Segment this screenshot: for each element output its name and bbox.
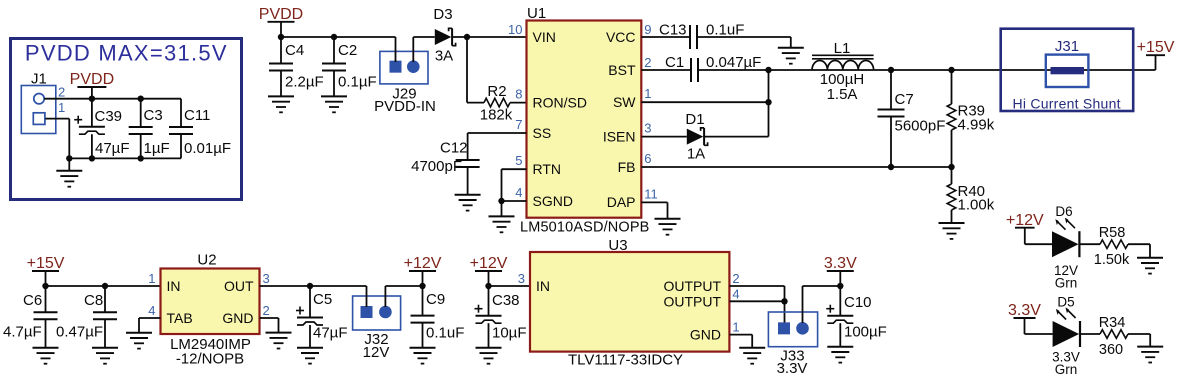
svg-text:D3: D3 [433,6,452,23]
label C2 [338,42,357,59]
pin VCC [606,29,636,45]
pin FB [618,159,636,175]
wire [1080,333,1100,335]
pin OUTPUT 4 [663,293,721,309]
svg-text:C10: C10 [844,294,872,311]
svg-text:C9: C9 [426,291,445,308]
label LM5010ASD/NOPB [520,220,649,236]
label D5 [1057,295,1074,310]
label U3 [608,237,627,254]
capacitor C2 [322,37,346,96]
wire [698,69,812,71]
svg-text:C2: C2 [338,42,357,59]
label C4 [285,42,304,59]
svg-text:2: 2 [644,55,651,70]
capacitor C13 [690,25,697,49]
IC U1 LM5010ASD/NOPB [527,21,642,218]
pin number 6 [644,151,651,166]
junction [89,96,95,102]
pin number 1 [732,320,739,335]
capacitor C5 [296,286,323,348]
junction [89,155,95,161]
wire [510,102,527,104]
label C10 [844,294,872,311]
label C6 [23,292,42,309]
pin GND [690,327,721,343]
svg-text:J1: J1 [31,71,47,88]
junction [464,34,470,40]
svg-text:BST: BST [608,62,636,78]
junction [307,283,313,289]
wire [641,136,687,138]
pin number 2 [644,55,651,70]
svg-text:+15V: +15V [27,255,65,272]
svg-text:4700pF: 4700pF [411,158,462,175]
label PVDD-IN [374,98,436,115]
capacitor C11 [169,99,193,159]
svg-text:PVDD-IN: PVDD-IN [374,98,436,115]
resistor R2 [484,98,510,107]
value 10µF [492,325,527,342]
label R34 [1099,315,1126,331]
label J29 [392,86,416,103]
value 47µF [95,140,130,157]
ground [1137,347,1163,363]
pin number 2 [732,271,739,286]
junction [948,67,954,73]
value 12V [1054,263,1078,278]
value 0.047µF [706,54,761,71]
wire [260,318,279,333]
label 12V [363,344,390,361]
svg-text:3: 3 [518,271,525,286]
power flag +15V [1137,39,1175,70]
svg-text:Hi Current Shunt: Hi Current Shunt [1013,96,1121,112]
svg-text:U1: U1 [527,5,546,22]
junction [765,99,771,105]
wire [729,286,784,301]
svg-text:R58: R58 [1099,225,1126,241]
svg-text:PVDD: PVDD [70,71,114,88]
svg-text:C7: C7 [895,91,914,108]
ground [33,348,59,364]
svg-text:DAP: DAP [607,194,636,210]
svg-text:PVDD: PVDD [259,6,303,23]
svg-text:2: 2 [263,303,270,318]
svg-text:4.7µF: 4.7µF [3,324,42,341]
wire [803,286,841,323]
value 1µF [144,140,170,157]
svg-text:R34: R34 [1099,315,1126,331]
wire [1025,333,1053,335]
LED D5 [1053,307,1080,347]
svg-text:182k: 182k [480,107,513,124]
connector J29 [380,51,428,84]
svg-text:1: 1 [644,86,651,101]
svg-text:U2: U2 [197,252,216,269]
capacitor C10 [826,286,853,347]
svg-text:IN: IN [167,278,181,294]
connector J33 [768,312,817,347]
svg-text:OUTPUT: OUTPUT [663,293,721,309]
label C3 [144,107,163,124]
label L1 [834,40,851,57]
svg-text:C5: C5 [313,291,332,308]
svg-text:SGND: SGND [533,193,573,209]
pin number 11 [644,186,658,201]
pin number 2 of J1 [58,85,65,100]
capacitor C12 [456,160,480,167]
wire [139,318,161,333]
capacitor C9 [411,286,435,348]
label J33 [780,347,804,364]
svg-text:1.5A: 1.5A [827,86,858,103]
power flag +12V [1006,212,1044,244]
svg-text:0.1uF: 0.1uF [706,22,744,39]
svg-text:+12V: +12V [470,255,508,272]
ground [297,348,323,364]
svg-text:0.47µF: 0.47µF [56,324,103,341]
ground [1137,258,1163,274]
value 100µF [844,324,887,341]
svg-text:4.99k: 4.99k [958,117,995,134]
svg-text:3.3V: 3.3V [777,360,808,377]
svg-text:IN: IN [536,278,550,294]
label TLV1117-33IDCY [568,352,683,369]
wire [46,285,161,287]
pin number 8 [515,87,522,102]
power flag PVDD (in box) [70,71,114,99]
value 0.1µF [338,74,377,91]
value 0.1uF [706,22,744,39]
junction [948,164,954,170]
label C11 [184,107,210,124]
pin DAP [607,194,636,210]
svg-text:D1: D1 [685,111,704,128]
label C13 [659,22,687,39]
label D1 [685,111,704,128]
ground [455,167,481,211]
svg-text:SW: SW [613,94,636,110]
PVDD MAX annotation box [11,39,242,200]
svg-text:47µF: 47µF [95,140,130,157]
pin RTN [533,161,562,177]
value 4.7µF [3,324,42,341]
svg-text:+15V: +15V [1137,39,1175,56]
value 360 [1099,342,1123,358]
svg-text:C11: C11 [184,107,210,124]
label U2 [197,252,216,269]
value 4700pF [411,158,462,175]
svg-text:360: 360 [1099,342,1123,358]
resistor R40 [947,167,956,223]
value Grn [1055,276,1078,291]
resistor R58 [1100,240,1128,249]
svg-text:R2: R2 [487,83,506,100]
wire [1128,244,1150,258]
junction [138,155,144,161]
wire [452,36,526,38]
svg-text:+12V: +12V [1006,212,1044,229]
shunt bar [1051,67,1085,74]
pin number 5 [515,153,522,168]
wire [502,169,527,201]
pin IN [536,278,550,294]
value 3.3V [1052,350,1080,365]
power flag PVDD [259,6,303,37]
pin SGND [533,193,573,209]
ground [827,347,853,363]
svg-text:SS: SS [533,125,552,141]
IC U2 LM2940IMP-12/NOPB [161,269,260,335]
wire [784,301,786,322]
junction [837,283,843,289]
pin number 1 [148,271,155,286]
svg-text:5600pF: 5600pF [895,118,946,135]
pin RON/SD [533,94,587,110]
junction [765,67,771,73]
svg-text:VCC: VCC [606,29,636,45]
svg-text:1µF: 1µF [144,140,170,157]
label C12 [440,140,468,157]
value 182k [480,107,513,124]
svg-text:4: 4 [732,286,739,301]
wire [641,36,690,38]
wire [260,285,367,287]
pin VIN [533,29,556,45]
pin SS [533,125,552,141]
pin number 4 [148,303,155,318]
wire [489,285,531,287]
connector J32 [353,296,401,330]
wire [641,166,951,168]
svg-text:3A: 3A [435,48,453,65]
value 0.1uF [426,325,464,342]
svg-text:LM5010ASD/NOPB: LM5010ASD/NOPB [520,220,649,236]
capacitor C38 [475,286,502,348]
label -12/NOPB [176,351,244,368]
power flag +12V [404,255,442,286]
svg-text:+12V: +12V [404,255,442,272]
svg-text:C4: C4 [285,42,304,59]
label D6 [1055,204,1072,219]
label C8 [84,292,103,309]
capacitor C39 [74,99,105,159]
ground [476,348,502,364]
wire [704,136,768,138]
pin OUT [224,278,254,294]
capacitor C6 [34,286,58,348]
label 3.3V [777,360,808,377]
pin number 1 of J1 [58,100,65,115]
svg-text:3: 3 [644,121,651,136]
wire [697,37,791,48]
svg-text:10µF: 10µF [492,325,527,342]
wire [467,37,484,103]
svg-text:47µF: 47µF [313,325,348,342]
label J31 [1055,38,1079,55]
value 100µH [820,71,865,88]
ground [778,48,804,64]
svg-text:J31: J31 [1055,38,1079,55]
svg-text:4: 4 [515,185,522,200]
svg-text:5: 5 [515,153,522,168]
label J32 [364,331,388,348]
capacitor C7 [878,70,905,167]
junction [66,155,72,161]
label C5 [313,291,332,308]
title text PVDD MAX=31.5V [25,41,227,66]
wire [1128,334,1150,347]
power flag +12V [470,255,508,286]
pin number 3 [263,271,270,286]
svg-text:1.50k: 1.50k [1094,252,1130,268]
pin BST [608,62,636,78]
label R2 [487,83,506,100]
svg-text:9: 9 [644,22,651,37]
ground [489,201,515,232]
value 5600pF [895,118,946,135]
svg-text:2: 2 [58,85,65,100]
inductor L1 [812,55,874,70]
label LM2940IMP [170,336,251,353]
pin number 7 [515,117,522,132]
value 4.99k [958,117,995,134]
svg-text:2: 2 [732,271,739,286]
junction [498,198,504,204]
connector J31 outer box [1001,29,1133,111]
power flag 3.3V [824,255,857,286]
value Grn [1055,362,1078,377]
value 1A [687,145,705,162]
value 2.2µF [285,74,324,91]
pin number 10 [508,22,522,37]
svg-text:OUT: OUT [224,278,254,294]
svg-text:6: 6 [644,151,651,166]
svg-text:12V: 12V [363,344,390,361]
junction [102,283,108,289]
svg-text:Grn: Grn [1055,276,1078,291]
svg-text:C3: C3 [144,107,163,124]
svg-text:D5: D5 [1057,295,1074,310]
ground [939,223,965,239]
wire [395,37,397,62]
label C39 [95,108,123,125]
svg-text:C8: C8 [84,292,103,309]
pin number 4 [732,286,739,301]
svg-text:ISEN: ISEN [603,128,636,144]
junction [42,283,48,289]
value 1.50k [1094,252,1130,268]
svg-text:1: 1 [148,271,155,286]
junction [331,34,337,40]
svg-text:RTN: RTN [533,161,562,177]
wire [768,70,770,137]
svg-text:8: 8 [515,87,522,102]
diode D1 [687,128,708,145]
power flag +15V [27,255,65,286]
wire [366,286,368,307]
junction [485,283,491,289]
pin number 1 [644,86,651,101]
label Hi Current Shunt [1013,96,1121,112]
capacitor C3 [129,99,153,159]
pin ISEN [603,128,636,144]
svg-text:11: 11 [644,186,658,201]
svg-text:GND: GND [690,327,721,343]
wire [468,133,527,160]
pin SW [613,94,636,110]
pin number 2 [263,303,270,318]
value 1.00k [958,197,995,214]
value 3A [435,48,453,65]
svg-text:FB: FB [618,159,636,175]
svg-text:3: 3 [263,271,270,286]
svg-text:C12: C12 [440,140,468,157]
ground [92,348,118,364]
junction [419,283,425,289]
wire [729,335,752,348]
svg-text:C38: C38 [492,292,520,309]
svg-text:VIN: VIN [533,29,556,45]
wire [641,69,691,71]
ground [321,96,347,112]
svg-text:C1: C1 [665,54,684,71]
junction [278,34,284,40]
ground [655,219,681,235]
label C38 [492,292,520,309]
connector J31 inner box [1046,55,1089,87]
pin number 9 [644,22,651,37]
svg-text:0.1uF: 0.1uF [426,325,464,342]
ground [739,348,765,364]
capacitor C4 [269,37,293,96]
junction [888,67,894,73]
power flag 3.3V [1008,302,1041,334]
ground [410,348,436,364]
svg-text:Grn: Grn [1055,362,1078,377]
wire [641,101,768,103]
label R40 [958,183,986,200]
ground [126,333,152,349]
pin number 3 [644,121,651,136]
capacitor C1 [691,58,698,82]
wire [69,157,181,159]
svg-text:4: 4 [148,303,155,318]
diode D3 [435,28,456,45]
svg-text:C13: C13 [659,22,687,39]
svg-text:2.2µF: 2.2µF [285,74,324,91]
pin TAB [167,310,193,326]
value 0.47µF [56,324,103,341]
value 0.01µF [184,140,231,157]
svg-text:7: 7 [515,117,522,132]
wire [874,69,1156,71]
value 47µF [313,325,348,342]
svg-text:-12/NOPB: -12/NOPB [176,351,244,368]
capacitor C8 [93,286,117,348]
svg-text:RON/SD: RON/SD [533,94,587,110]
svg-text:OUTPUT: OUTPUT [663,278,721,294]
connector J1 [21,71,56,134]
svg-text:10: 10 [508,22,522,37]
wire [281,36,396,38]
svg-text:100µF: 100µF [844,324,887,341]
svg-text:1.00k: 1.00k [958,197,995,214]
svg-text:1A: 1A [687,145,705,162]
wire [385,286,422,307]
svg-text:TLV1117-33IDCY: TLV1117-33IDCY [568,352,683,369]
